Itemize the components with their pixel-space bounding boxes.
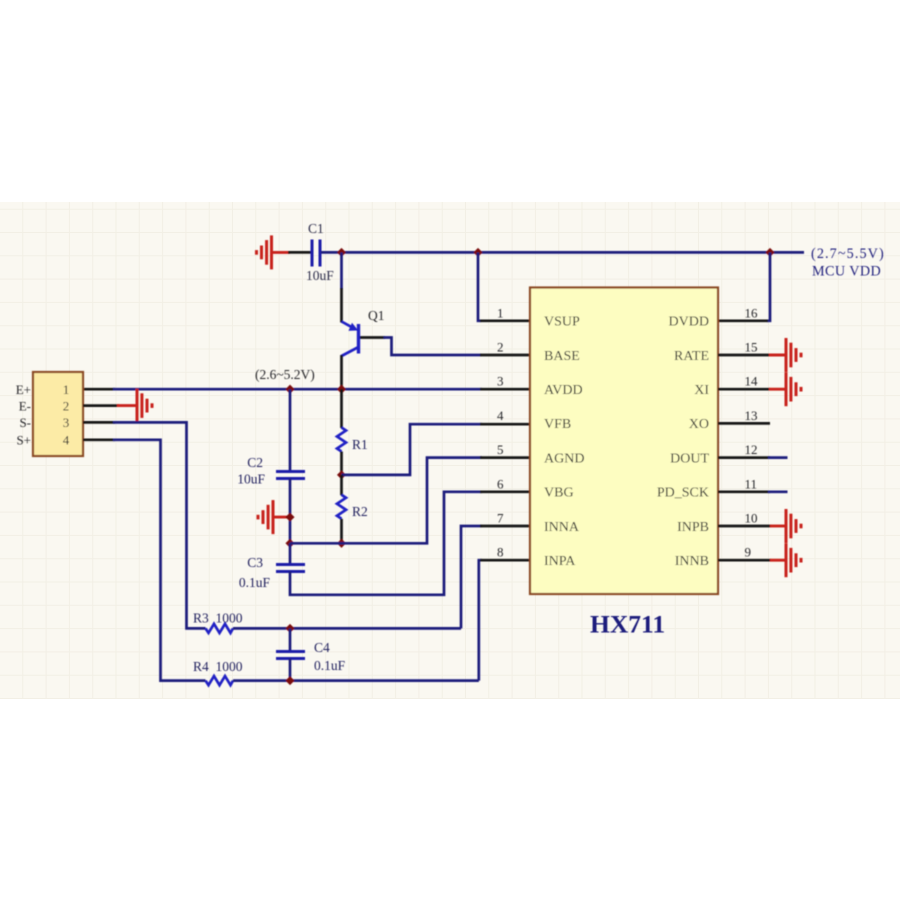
svg-text:3: 3: [63, 415, 70, 430]
wire (rail to Q1 emitter): [340, 252, 343, 322]
node R2/AGND junction: [337, 539, 346, 548]
svg-text:4: 4: [63, 433, 70, 448]
wire pin10 stub: [718, 525, 771, 528]
wire E- stub: [83, 404, 119, 407]
svg-text:S-: S-: [19, 415, 31, 430]
node R1/R2/VFB junction: [337, 470, 346, 479]
svg-text:15: 15: [745, 340, 758, 355]
wire AGND net (to pin5): [290, 458, 530, 544]
svg-text:0.1uF: 0.1uF: [239, 575, 271, 590]
schematic sheet background: [0, 202, 900, 699]
svg-text:10uF: 10uF: [237, 472, 265, 487]
svg-text:VFB: VFB: [544, 417, 571, 432]
svg-text:8: 8: [497, 545, 504, 560]
capacitor C1: [312, 240, 320, 267]
wire S+ to R4: [83, 440, 206, 681]
svg-text:R4 1000: R4 1000: [193, 659, 243, 674]
node DVDD junction: [765, 248, 774, 257]
svg-text:14: 14: [745, 374, 759, 389]
svg-text:10uF: 10uF: [306, 268, 334, 283]
ground (INNB pin9): [770, 543, 801, 577]
capacitor C2: [276, 472, 305, 479]
connector J1: [33, 372, 83, 456]
wire pin14 stub: [718, 388, 770, 391]
ground (E-): [117, 389, 152, 423]
svg-text:RATE: RATE: [674, 349, 709, 364]
svg-text:1: 1: [63, 382, 70, 397]
svg-text:Q1: Q1: [368, 308, 385, 323]
svg-text:INPB: INPB: [677, 520, 709, 535]
svg-text:INPA: INPA: [544, 554, 576, 569]
node C1/Q1 junction: [337, 248, 346, 257]
wire (junction to VFB pin4): [342, 424, 531, 475]
wire AVDD rail (E+ to pin3): [83, 388, 530, 391]
wire (R4 line up to INPA pin8): [479, 560, 530, 680]
svg-text:MCU VDD: MCU VDD: [812, 264, 881, 280]
ground (INPB pin10): [770, 509, 801, 543]
svg-text:BASE: BASE: [544, 349, 580, 364]
wire pin16 stub: [718, 319, 768, 322]
svg-text:AVDD: AVDD: [544, 383, 583, 398]
ground (at C1): [257, 235, 291, 269]
wire S- to R3: [83, 422, 206, 628]
svg-text:C1: C1: [308, 221, 324, 236]
svg-text:6: 6: [497, 476, 504, 491]
capacitor C4: [276, 628, 305, 680]
svg-text:16: 16: [745, 305, 759, 320]
node R4/C4 junction: [285, 676, 294, 685]
svg-text:VSUP: VSUP: [544, 315, 580, 330]
wire (rail down to DVDD pin16): [767, 252, 770, 320]
node R3/C4 junction: [285, 624, 294, 633]
svg-text:0.1uF: 0.1uF: [314, 658, 346, 673]
svg-text:4: 4: [497, 408, 504, 423]
svg-text:XO: XO: [689, 417, 709, 432]
svg-text:2: 2: [497, 340, 504, 355]
wire (R3 line up to INNA pin7): [461, 526, 530, 628]
wire pin1 stub: [480, 319, 530, 322]
transistor Q1: [342, 322, 359, 357]
svg-text:E-: E-: [19, 399, 31, 414]
resistor R2: [337, 475, 346, 543]
svg-text:PD_SCK: PD_SCK: [657, 486, 709, 501]
wire (ground to C1): [288, 251, 311, 254]
resistor R3: [206, 624, 462, 633]
wire pin13 stub: [718, 422, 770, 425]
svg-text:7: 7: [497, 511, 504, 526]
svg-text:AGND: AGND: [544, 451, 584, 466]
wire (Q1 collector to AVDD rail): [340, 355, 343, 389]
ground (XI pin14): [769, 372, 801, 406]
node C2/ground junction: [285, 513, 294, 522]
resistor R4: [206, 676, 479, 685]
svg-text:INNB: INNB: [675, 554, 709, 569]
resistor R1: [337, 389, 346, 475]
wire (rail down to VSUP pin1): [478, 252, 481, 320]
svg-text:9: 9: [745, 545, 752, 560]
svg-text:5: 5: [497, 442, 504, 457]
wire VDD rail: [321, 251, 804, 254]
capacitor C3: [276, 543, 305, 571]
svg-text:12: 12: [745, 442, 758, 457]
node C2/rail junction: [285, 385, 294, 394]
svg-text:(2.6~5.2V): (2.6~5.2V): [255, 367, 315, 382]
svg-text:R1: R1: [352, 437, 368, 452]
wire (rail down to C2): [289, 389, 292, 472]
wire pin12 stub: [718, 456, 788, 459]
svg-text:1: 1: [497, 305, 504, 320]
svg-text:2: 2: [63, 399, 70, 414]
svg-text:E+: E+: [16, 382, 31, 397]
svg-text:3: 3: [497, 374, 504, 389]
svg-text:13: 13: [745, 408, 758, 423]
svg-text:10: 10: [745, 511, 758, 526]
svg-text:R2: R2: [352, 504, 368, 519]
svg-text:DOUT: DOUT: [670, 451, 709, 466]
svg-text:S+: S+: [16, 433, 31, 448]
ground (RATE pin15): [769, 338, 801, 372]
wire pin9 stub: [718, 559, 771, 562]
node C2/C3/AGND junction: [285, 539, 294, 548]
node Q1/rail junction: [337, 385, 346, 394]
wire (Q1 base to pin2 BASE): [360, 338, 530, 356]
svg-text:XI: XI: [694, 383, 709, 398]
svg-text:R3 1000: R3 1000: [193, 611, 243, 626]
wire (C2 to AGND net): [289, 479, 292, 544]
svg-text:VBG: VBG: [544, 486, 574, 501]
svg-text:C4: C4: [314, 640, 330, 655]
IC U1 HX711 body: [530, 288, 718, 595]
ground (C2): [258, 500, 290, 534]
svg-text:INNA: INNA: [544, 520, 580, 535]
wire pin15 stub: [718, 354, 770, 357]
wire (C3 to VBG pin6): [290, 492, 530, 595]
node VSUP junction: [473, 248, 482, 257]
svg-text:(2.7~5.5V): (2.7~5.5V): [811, 246, 885, 262]
svg-text:C3: C3: [247, 555, 263, 570]
svg-text:C2: C2: [247, 455, 263, 470]
svg-text:DVDD: DVDD: [669, 315, 709, 330]
svg-text:11: 11: [745, 476, 758, 491]
wire pin11 stub: [718, 490, 788, 493]
svg-text:HX711: HX711: [590, 610, 665, 639]
